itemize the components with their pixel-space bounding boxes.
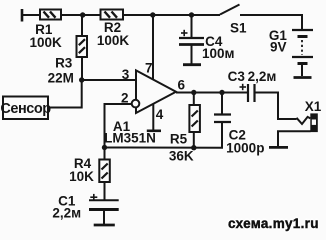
wire R4 top lead — [104, 148, 106, 160]
jack X1 body — [310, 113, 318, 132]
capacitor C2 — [214, 115, 231, 123]
svg-text:2,2м: 2,2м — [248, 69, 277, 84]
node F junction — [191, 145, 196, 150]
svg-text:2: 2 — [121, 90, 129, 105]
battery G1 — [292, 30, 313, 64]
wire feedback rail — [105, 123, 223, 148]
svg-text:7: 7 — [145, 61, 153, 76]
resistor R2 — [101, 10, 124, 20]
terminal bar left — [21, 9, 24, 22]
wire R5 bottom lead — [193, 132, 195, 148]
wire R1 to node A — [61, 14, 101, 16]
resistor R4 — [99, 160, 110, 183]
wire left terminal to R1 — [22, 14, 40, 16]
svg-text:S1: S1 — [230, 20, 247, 35]
wire C3 to jack — [256, 93, 297, 120]
pin 7 wire — [152, 15, 154, 80]
svg-text:36K: 36K — [169, 148, 194, 163]
common bar under pin 4 — [147, 130, 161, 133]
wire R2 to switch — [123, 14, 220, 16]
svg-text:X1: X1 — [305, 99, 322, 114]
common bar under G1 — [294, 76, 312, 79]
wire jack sleeve to ground — [278, 131, 311, 146]
pin 2 wire — [105, 104, 133, 148]
resistor R5 — [189, 105, 200, 132]
output wire pin 6 — [176, 92, 247, 94]
resistor R1 — [40, 10, 61, 20]
svg-text:6: 6 — [178, 78, 186, 93]
svg-text:9V: 9V — [270, 40, 287, 55]
svg-text:4: 4 — [156, 107, 164, 122]
wire R4 to C1 — [104, 182, 106, 200]
wire R5 top lead — [193, 93, 195, 106]
capacitor C1 — [89, 194, 119, 210]
wire node D to pin 3 — [82, 79, 136, 81]
wire C4 bottom lead — [191, 46, 193, 64]
capacitor C4 — [179, 30, 204, 45]
capacitor C3 — [240, 84, 255, 102]
svg-text:100K: 100K — [97, 33, 130, 48]
node R5 top junction — [191, 90, 196, 95]
wire C4 top lead — [191, 15, 193, 37]
watermark cxema.my1.ru — [228, 216, 319, 231]
jack X1 tip contact — [297, 117, 311, 124]
node E junction — [102, 145, 107, 150]
wire C1 bottom lead — [103, 210, 105, 225]
inverting input bubble — [132, 100, 140, 108]
jack X1 hole — [312, 120, 316, 125]
sensor box — [3, 97, 48, 120]
svg-text:2,2м: 2,2м — [52, 206, 81, 221]
svg-text:C3: C3 — [228, 69, 246, 84]
svg-text:100K: 100K — [29, 35, 62, 50]
svg-text:LM351N: LM351N — [104, 131, 156, 146]
wire battery to common bar — [301, 65, 303, 76]
node A junction — [80, 12, 85, 17]
wire R3 top lead — [81, 15, 83, 36]
svg-text:22M: 22M — [48, 71, 74, 86]
svg-text:10K: 10K — [69, 169, 94, 184]
wire R3 bottom lead to node D — [81, 57, 83, 80]
svg-text:R5: R5 — [170, 131, 188, 146]
node D junction — [79, 77, 84, 82]
op-amp A1 triangle — [136, 70, 176, 113]
common bar under X1 — [269, 146, 288, 149]
svg-text:R3: R3 — [55, 56, 73, 71]
pin 4 wire — [152, 104, 154, 130]
common bar under C1 — [94, 224, 115, 227]
wire sensor to node D — [48, 80, 82, 108]
common bar under C4 — [183, 63, 201, 66]
svg-text:1000p: 1000p — [226, 140, 264, 155]
wire C2 top lead — [221, 93, 223, 115]
svg-text:3: 3 — [122, 67, 130, 82]
svg-text:100м: 100м — [202, 46, 235, 61]
resistor R3 — [77, 36, 88, 57]
node C junction (C4 branch) — [189, 12, 194, 17]
wire switch to battery corner — [240, 15, 302, 30]
node B junction (pin7 branch) — [150, 12, 155, 17]
switch S1 lever — [220, 5, 240, 15]
svg-text:Сенсор: Сенсор — [0, 101, 51, 117]
node C2 top junction — [219, 90, 224, 95]
